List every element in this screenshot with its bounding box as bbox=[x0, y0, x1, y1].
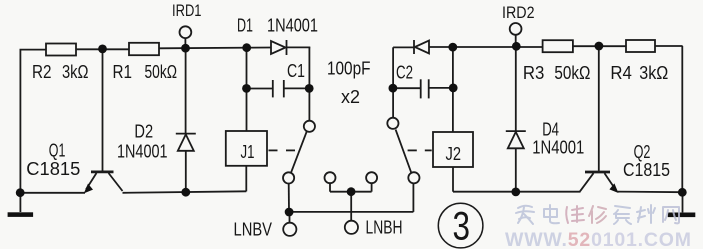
svg-text:100pF: 100pF bbox=[327, 58, 371, 79]
wire S2 pole riser bbox=[412, 183, 414, 212]
right rail bbox=[681, 46, 683, 192]
switch S1 moving contact bbox=[283, 172, 294, 183]
svg-text:R3: R3 bbox=[523, 62, 545, 83]
wire LNBH stub bbox=[350, 192, 352, 221]
photodetector terminal IRD2 bbox=[510, 23, 522, 46]
wire common bus to S2 pole bbox=[289, 211, 413, 213]
wire S1 pole down to bus bbox=[288, 184, 290, 212]
switch S2 top contact bbox=[387, 118, 398, 129]
svg-text:1N4001: 1N4001 bbox=[267, 15, 318, 36]
resistor R4 bbox=[626, 40, 655, 52]
svg-text:IRD1: IRD1 bbox=[172, 1, 202, 20]
watermark char 维 bbox=[566, 206, 584, 223]
wire LNBV stub bbox=[289, 212, 291, 223]
watermark char 網 bbox=[663, 207, 679, 223]
capacitor C2 bbox=[421, 79, 429, 98]
node R3/R4/Q2-base bbox=[595, 42, 604, 51]
dashed link J1 to switch bbox=[269, 149, 296, 151]
wire C1 left lead bbox=[247, 88, 273, 90]
diode D3 bbox=[414, 40, 429, 54]
relay coil J2 bbox=[433, 132, 473, 167]
svg-text:LNBV: LNBV bbox=[234, 219, 273, 240]
resistor R3 bbox=[543, 40, 573, 52]
svg-text:J1: J1 bbox=[241, 141, 255, 162]
svg-text:x2: x2 bbox=[341, 86, 360, 107]
wire Q2 emitter to right rail bbox=[617, 191, 682, 194]
svg-text:1N4001: 1N4001 bbox=[532, 137, 584, 158]
dashed link switch to J2 bbox=[408, 149, 432, 151]
diode D2 bbox=[176, 134, 196, 151]
transistor Q1 bbox=[84, 172, 123, 194]
svg-text:1N4001: 1N4001 bbox=[117, 141, 168, 162]
svg-text:IRD2: IRD2 bbox=[502, 3, 535, 22]
svg-text:R1: R1 bbox=[113, 61, 133, 82]
wire R2 to R1 bbox=[76, 48, 129, 50]
wire R3 to R4 bbox=[573, 45, 626, 47]
svg-text:D2: D2 bbox=[134, 121, 153, 142]
wire R4 to right rail bbox=[655, 45, 683, 47]
ground right bbox=[668, 192, 696, 217]
wire Q1 base lead bbox=[102, 49, 104, 171]
wire J1 bottom lead bbox=[245, 166, 247, 192]
wire top-left from left rail to R2 bbox=[20, 49, 47, 51]
svg-text:3: 3 bbox=[453, 205, 471, 249]
svg-text:50kΩ: 50kΩ bbox=[554, 62, 590, 83]
wire J2 bottom lead bbox=[452, 167, 454, 192]
contact circle right-middle bbox=[366, 172, 377, 183]
switch S2 moving contact bbox=[408, 172, 419, 183]
svg-text:C2: C2 bbox=[396, 62, 413, 83]
svg-text:C1815: C1815 bbox=[623, 159, 670, 180]
wire Q2 base lead bbox=[598, 46, 600, 171]
watermark char 料 bbox=[637, 205, 655, 223]
figure number circle 3 bbox=[438, 203, 483, 248]
svg-text:3kΩ: 3kΩ bbox=[62, 61, 89, 82]
resistor R1 bbox=[129, 43, 159, 55]
svg-text:D1: D1 bbox=[237, 15, 253, 36]
svg-text:C1815: C1815 bbox=[26, 158, 80, 179]
wire bracket joining middle contacts bbox=[330, 191, 372, 193]
svg-text:50kΩ: 50kΩ bbox=[145, 61, 178, 82]
photodetector terminal IRD1 bbox=[180, 26, 192, 48]
wire C2 right lead bbox=[429, 87, 454, 89]
svg-text:WWW.520101.COM: WWW.520101.COM bbox=[505, 229, 692, 249]
wire Q1 collector to J1 bottom lead bbox=[123, 191, 247, 193]
node R2/R1/Q1-base bbox=[98, 45, 107, 54]
node right ground bbox=[678, 188, 687, 197]
wire corner down to switch top contact bbox=[308, 47, 310, 120]
watermark char 修 bbox=[589, 206, 606, 223]
capacitor C1 bbox=[273, 80, 284, 97]
wire J2 to Q2 collector bbox=[453, 191, 581, 193]
svg-text:LNBH: LNBH bbox=[366, 217, 403, 238]
left rail bbox=[19, 50, 21, 193]
node bracket/LNBH bbox=[347, 187, 356, 196]
svg-text:C1: C1 bbox=[287, 60, 305, 81]
node D2 bottom bbox=[181, 188, 190, 197]
contact circle left-middle bbox=[325, 172, 336, 183]
wire IRD1 node down to D2 cathode bbox=[185, 48, 187, 133]
node bus/LNBV bbox=[285, 208, 294, 217]
node D1 anode / J1 branch bbox=[242, 43, 251, 52]
transistor Q2 bbox=[580, 172, 618, 193]
wire R1 to D1 anode bbox=[159, 47, 271, 50]
switch S1 top contact bbox=[304, 121, 315, 132]
wire J2 top lead bbox=[452, 47, 454, 132]
wire stub from left-middle contact bbox=[329, 183, 331, 192]
node C1 left bbox=[242, 84, 251, 93]
node D3 / J2 branch bbox=[448, 43, 457, 52]
node IRD2 bbox=[512, 42, 521, 51]
wire ground bus to Q1 emitter bbox=[20, 192, 86, 194]
wire C1 right lead bbox=[284, 87, 310, 89]
node IRD1 bbox=[181, 44, 190, 53]
terminal LNBH bbox=[345, 221, 358, 234]
wire S2 top contact up to corner bbox=[392, 47, 394, 117]
wire D1 cathode to corner bbox=[287, 46, 311, 48]
node C2 right bbox=[449, 84, 458, 93]
switch S2 arm bbox=[396, 130, 412, 173]
node C1 right bbox=[305, 84, 314, 93]
relay coil J1 bbox=[226, 131, 267, 166]
svg-text:3kΩ: 3kΩ bbox=[639, 62, 668, 83]
svg-text:R2: R2 bbox=[32, 61, 52, 82]
wire D4 anode down to bottom wire bbox=[515, 148, 517, 192]
node C2 left bbox=[389, 84, 398, 93]
watermark chinese characters bbox=[516, 205, 679, 224]
ground left bbox=[8, 193, 33, 217]
wire D2 anode down to bottom wire bbox=[185, 151, 187, 192]
wire corner to right diode bbox=[393, 46, 414, 48]
terminal LNBV bbox=[283, 223, 296, 236]
diode D4 bbox=[506, 131, 526, 148]
diode D1 bbox=[271, 40, 287, 55]
svg-text:J2: J2 bbox=[446, 143, 462, 164]
wire diode to IRD2 node bbox=[429, 46, 543, 48]
resistor R2 bbox=[46, 44, 76, 56]
svg-text:R4: R4 bbox=[610, 62, 632, 83]
wire J1 top lead up to top wire bbox=[246, 48, 248, 131]
watermark char 家 bbox=[516, 206, 534, 224]
watermark char 資 bbox=[614, 206, 631, 224]
node left ground bbox=[16, 188, 25, 197]
wire IRD2 node down to D4 cathode bbox=[515, 47, 517, 131]
watermark char 电 bbox=[544, 205, 559, 223]
node D4 bottom bbox=[511, 188, 520, 197]
switch S1 arm bbox=[291, 131, 307, 172]
wire stub from right-middle contact bbox=[371, 183, 373, 192]
wire C2 left lead bbox=[393, 87, 420, 89]
